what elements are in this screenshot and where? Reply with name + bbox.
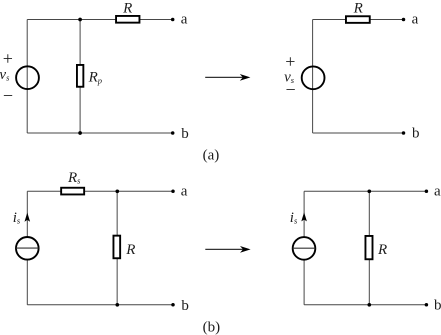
wire: circuit (b) right, top conductor (304, 190, 426, 192)
svg-text:b: b (434, 298, 441, 314)
svg-text:+: + (285, 52, 295, 72)
wire: circuit (b) right, middle branch (368, 191, 370, 304)
node b terminal (circuit b right) (425, 303, 429, 307)
resistor R (circuit b right, parallel) (365, 236, 372, 259)
wire: circuit (a) left, middle branch (79, 20, 81, 134)
node: junction bottom (circuit b right) (367, 303, 371, 307)
wire: circuit (b) left, left conductor (26, 191, 28, 304)
arrow: transformation (b) (205, 246, 250, 253)
svg-text:−: − (3, 85, 13, 105)
arrow: transformation (a) (205, 74, 250, 81)
node b terminal (circuit a left) (171, 131, 175, 135)
node: junction top (circuit b right) (367, 189, 371, 193)
svg-text:R: R (377, 242, 387, 258)
svg-text:(a): (a) (203, 147, 220, 163)
wire: circuit (a) left, left conductor through source (26, 20, 28, 134)
wire: circuit (a) right, top conductor (313, 19, 404, 21)
svg-text:a: a (181, 11, 188, 27)
wire: circuit (b) left, bottom conductor (27, 304, 173, 306)
resistor Rp (circuit a left, parallel) (77, 65, 83, 87)
svg-text:(b): (b) (203, 320, 221, 335)
node a terminal (circuit b right) (425, 190, 429, 194)
arrow: current direction is (circuit b left) (25, 213, 31, 222)
wire: circuit (a) right, bottom conductor (313, 132, 404, 134)
svg-text:b: b (412, 125, 420, 141)
wire: circuit (b) right, left conductor (303, 191, 305, 304)
resistor R (circuit b left, parallel) (113, 236, 120, 259)
wire: circuit (a) left, top conductor (27, 19, 173, 21)
wire: circuit (b) left, top conductor (27, 190, 173, 192)
current source is (circuit b right) (293, 237, 316, 260)
node a terminal (circuit b left) (171, 190, 175, 194)
wire: circuit (a) left, bottom conductor (27, 132, 173, 134)
voltage source vs (circuit a left) (16, 66, 39, 89)
node b terminal (circuit a right) (402, 131, 406, 135)
svg-text:b: b (181, 298, 189, 314)
wire: circuit (b) left, middle branch (116, 191, 118, 304)
arrow: current direction is (circuit b right) (301, 212, 307, 221)
node: junction bottom (circuit b left) (115, 303, 119, 307)
node b terminal (circuit b left) (171, 303, 175, 307)
node a terminal (circuit a left) (171, 18, 175, 22)
svg-text:R: R (353, 0, 363, 16)
node: junction top (circuit a left) (78, 18, 82, 22)
voltage source vs (circuit a right) (302, 66, 325, 89)
wire: circuit (b) right, bottom conductor (304, 304, 426, 306)
resistor R (circuit a right) (346, 16, 370, 23)
resistor R (circuit a left, series) (116, 16, 139, 23)
node: junction top (circuit b left) (115, 189, 119, 193)
node: junction bottom (circuit a left) (78, 131, 82, 135)
current source is (circuit b left) (16, 237, 39, 260)
svg-text:a: a (434, 183, 441, 199)
svg-text:R: R (125, 242, 135, 258)
svg-text:b: b (181, 126, 189, 142)
svg-text:a: a (412, 11, 419, 27)
node a terminal (circuit a right) (402, 18, 406, 22)
svg-text:+: + (3, 48, 13, 68)
resistor Rs (circuit b left, series) (61, 188, 84, 195)
svg-text:−: − (286, 80, 296, 100)
wire: circuit (a) right, left conductor through source (312, 20, 314, 134)
svg-text:R: R (122, 0, 132, 16)
svg-text:a: a (181, 183, 188, 199)
